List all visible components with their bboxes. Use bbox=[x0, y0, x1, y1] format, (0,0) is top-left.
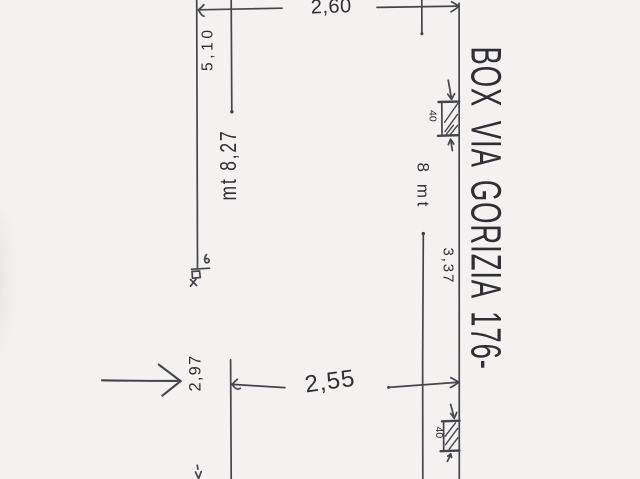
wall line left (x=197) bbox=[196, 0, 199, 269]
dot terminator bbox=[230, 110, 233, 113]
arrowhead left of 2,60 dimension bbox=[198, 5, 204, 16]
wire: vertical leader line from top edge (x=231) bbox=[230, 0, 233, 111]
leader arrow above pillar P2 bbox=[451, 404, 454, 415]
pillar P1 (top) bbox=[438, 102, 459, 136]
small tick below pillar P2 bbox=[447, 455, 450, 461]
wire: top dimension line 2,60 right segment bbox=[377, 6, 459, 7]
cap bottom bbox=[441, 449, 460, 452]
cap top bbox=[442, 420, 460, 423]
wire: vertical line bottom (x=231) bbox=[230, 360, 233, 479]
wire: long interior line (x=423) with dot start bbox=[422, 232, 425, 235]
leader arrow above pillar P1 bbox=[448, 80, 451, 97]
end scribble at bottom of left wall line bbox=[205, 255, 209, 263]
leader arrow below pillar P1 bbox=[451, 141, 453, 150]
left edge bbox=[443, 423, 445, 450]
wall line right (x=459) bbox=[458, 3, 460, 479]
cap bottom bbox=[438, 134, 459, 137]
cap top bbox=[438, 100, 459, 103]
wire: dimension line 2,55 left segment with arrowhead bbox=[232, 384, 285, 387]
left edge bbox=[441, 103, 443, 134]
paper smudge left edge bbox=[0, 150, 25, 410]
pillar P2 (bottom) bbox=[441, 421, 460, 452]
hatch lines bbox=[445, 104, 458, 123]
wire: short vertical leader from top edge (x=422) bbox=[421, 0, 423, 33]
bottom-left broken leader tick bbox=[196, 465, 199, 469]
wire: top dimension line 2,60 left segment bbox=[199, 8, 282, 10]
hatch lines bbox=[445, 423, 455, 436]
arrowhead right of 2,60 dimension bbox=[451, 2, 459, 12]
paper grain bbox=[0, 0, 1, 1]
big entrance arrow bbox=[102, 365, 181, 396]
wire: dimension line 2,55 right segment with arrowhead bbox=[387, 386, 390, 389]
